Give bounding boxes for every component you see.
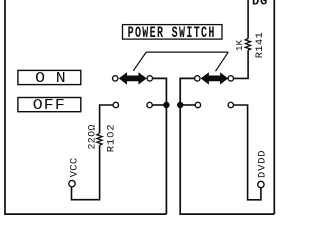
svg-text:R141: R141 <box>254 32 266 58</box>
pin circle B1 <box>195 76 200 81</box>
pin circle B3 <box>195 102 200 107</box>
svg-text:OFF: OFF <box>33 97 66 114</box>
svg-text:1K: 1K <box>235 39 245 51</box>
resistor R102 <box>97 133 102 145</box>
wire R141 branch <box>234 50 249 78</box>
label box POWER SWITCH <box>123 25 223 43</box>
label box OFF <box>18 97 81 114</box>
svg-text:O N: O N <box>35 70 66 87</box>
node junction left <box>163 102 169 108</box>
wire DVDD branch <box>234 105 261 200</box>
svg-text:POWER SWITCH: POWER SWITCH <box>128 25 216 43</box>
wire right switch row2 left stub <box>180 104 195 106</box>
svg-text:R102: R102 <box>106 123 118 152</box>
pin circle B4 <box>228 102 233 107</box>
wire R102 to VCC <box>72 145 100 200</box>
svg-text:220Ω: 220Ω <box>87 124 98 149</box>
node junction right <box>177 102 183 108</box>
resistor R141 <box>245 39 250 51</box>
svg-text:DVDD: DVDD <box>257 150 269 178</box>
wire left switch common column <box>152 78 166 214</box>
linkage bar <box>146 51 228 53</box>
switch SW1 pole B (right) <box>195 52 234 108</box>
wire left vertical (net to top) <box>5 0 166 214</box>
wire right vertical (net to top) <box>273 0 275 214</box>
pin circle A4 <box>147 102 152 107</box>
pin circle A1 <box>113 76 118 81</box>
pin circle B2 <box>228 76 233 81</box>
wire row2 left to R102 <box>100 105 113 133</box>
node VCC pin <box>69 180 75 186</box>
wire left switch row2 right stub <box>152 104 166 106</box>
wire right switch left column <box>180 78 274 214</box>
svg-text:DG: DG <box>252 0 268 9</box>
wire R141 to DG <box>247 0 249 39</box>
lever A <box>133 52 146 71</box>
label box ON <box>18 70 81 87</box>
node DVDD pin <box>258 181 264 187</box>
lever B <box>216 52 229 71</box>
blade arrow <box>201 72 229 84</box>
switch SW1 pole A (left) <box>113 52 153 108</box>
svg-text:VCC: VCC <box>68 157 80 177</box>
pin circle A3 <box>113 102 118 107</box>
pin circle A2 <box>147 76 152 81</box>
blade arrow <box>119 72 147 84</box>
